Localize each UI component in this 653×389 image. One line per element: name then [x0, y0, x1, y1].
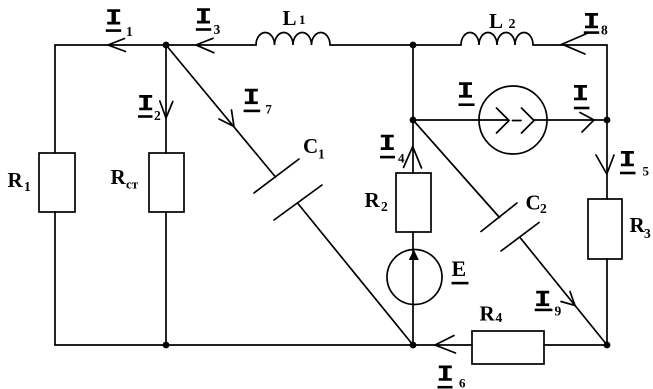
svg-text:3: 3	[644, 226, 651, 241]
arrow I7	[219, 110, 234, 127]
current source chevron 2	[522, 108, 535, 133]
svg-text:R: R	[365, 188, 381, 212]
resistor R4	[472, 331, 544, 364]
wire Rst branch lower	[165, 212, 167, 345]
label I7	[245, 89, 258, 104]
capacitor C2 upper lead wire	[413, 120, 500, 218]
svg-text:8: 8	[601, 23, 608, 38]
wire bottom right segment	[544, 344, 607, 346]
svg-text:R: R	[111, 165, 127, 189]
svg-text:L: L	[489, 9, 503, 33]
inductor L1	[256, 33, 330, 46]
label I right of current source	[574, 85, 587, 100]
label I4	[381, 135, 394, 150]
label I left of current source	[459, 82, 472, 97]
svg-text:2: 2	[381, 199, 388, 214]
voltage source E arrow triangle	[409, 250, 419, 261]
capacitor C1 plate 2	[274, 185, 322, 220]
current source U1 circle	[479, 86, 547, 154]
wire middle horizontal right of current source	[534, 119, 607, 121]
svg-text:1: 1	[299, 12, 306, 27]
svg-text:E: E	[452, 256, 467, 281]
arrow I3	[196, 38, 214, 52]
voltage source E circle	[387, 250, 442, 305]
label I9	[536, 291, 549, 306]
svg-text:2: 2	[154, 108, 161, 123]
capacitor C2 plate 2	[501, 223, 539, 252]
wire top-left segment	[55, 44, 256, 46]
arrow I2	[160, 101, 173, 118]
wire left rail upper	[54, 45, 56, 153]
current source dash	[513, 120, 522, 122]
svg-text:1: 1	[318, 147, 325, 162]
wire Rst branch upper	[165, 45, 167, 153]
svg-text:7: 7	[266, 103, 272, 117]
node at middle-left junction	[410, 117, 417, 124]
svg-text:9: 9	[555, 304, 562, 319]
inductor L2	[461, 33, 533, 46]
svg-text:4: 4	[496, 310, 503, 325]
node at bottom right junction	[604, 342, 611, 349]
capacitor C1 upper lead wire	[166, 45, 276, 177]
wire middle horizontal left of current source	[413, 119, 509, 121]
label I3	[197, 8, 210, 23]
svg-text:2: 2	[509, 17, 516, 32]
wire bottom left segment	[55, 344, 472, 346]
wire middle rail upper	[412, 45, 414, 173]
svg-text:L: L	[283, 6, 297, 30]
arrow I9	[561, 292, 575, 306]
svg-text:6: 6	[459, 376, 466, 389]
wire right rail upper	[606, 45, 608, 199]
svg-text:C: C	[303, 134, 318, 158]
svg-text:ст: ст	[126, 177, 139, 192]
svg-text:1: 1	[24, 179, 31, 194]
node at top middle junction	[410, 42, 417, 49]
svg-text:5: 5	[643, 164, 650, 179]
label I6	[439, 366, 452, 381]
svg-text:2: 2	[540, 201, 547, 216]
node at middle-right junction	[604, 117, 611, 124]
resistor R2	[396, 173, 431, 232]
node at bottom middle junction	[410, 342, 417, 349]
resistor Rst	[149, 153, 184, 212]
capacitor C1 lower lead wire	[298, 203, 414, 345]
svg-text:C: C	[526, 191, 541, 215]
svg-text:R: R	[8, 168, 24, 192]
label I5	[621, 151, 634, 166]
svg-text:R: R	[480, 302, 496, 326]
svg-text:4: 4	[398, 151, 405, 166]
label I8	[585, 13, 598, 28]
capacitor C1 plate 1	[254, 159, 299, 193]
arrow I6	[435, 336, 456, 354]
arrow I source output	[580, 113, 594, 133]
resistor R3	[588, 199, 622, 259]
arrow I8	[562, 33, 588, 54]
wire middle rail lower	[412, 232, 414, 345]
node at top Rst junction	[163, 42, 170, 49]
wire top-middle segment	[330, 44, 461, 46]
node at bottom Rst junction	[163, 342, 170, 349]
label I1	[107, 9, 120, 24]
arrow I5	[596, 155, 614, 174]
arrow I1	[108, 39, 126, 52]
capacitor C2 lower lead wire	[520, 238, 607, 346]
svg-text:1: 1	[126, 24, 133, 39]
svg-text:3: 3	[214, 22, 221, 37]
wire top-right segment	[533, 44, 607, 46]
arrow I4	[404, 147, 422, 169]
resistor R1	[39, 153, 75, 212]
label I2	[139, 95, 152, 110]
wire left rail lower	[54, 212, 56, 345]
wire right rail lower	[606, 259, 608, 345]
current source chevron 1	[497, 108, 510, 133]
capacitor C2 plate 1	[481, 203, 517, 232]
